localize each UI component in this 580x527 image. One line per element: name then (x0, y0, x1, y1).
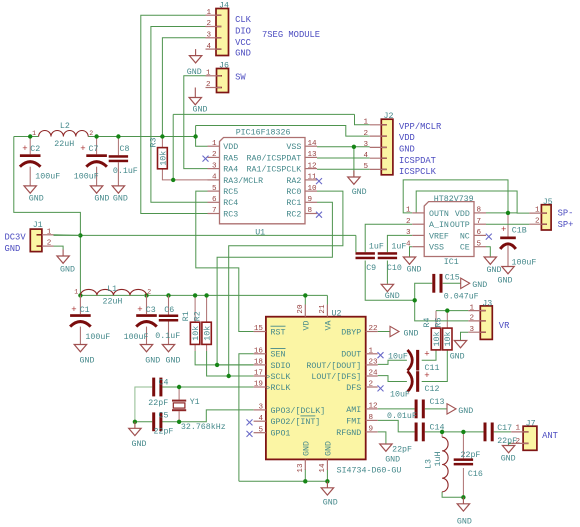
svg-text:9: 9 (308, 196, 313, 204)
svg-text:A_IN: A_IN (429, 221, 449, 230)
svg-text:14: 14 (308, 140, 318, 148)
svg-text:U1: U1 (255, 229, 265, 238)
wire C17 to J7 pin1 (494, 431, 512, 433)
svg-text:GND: GND (404, 329, 419, 338)
junction IC1 VDD / C1B (506, 211, 510, 215)
svg-text:Y1: Y1 (190, 398, 200, 407)
svg-text:10uF: 10uF (388, 353, 408, 362)
wire A_IN IC1 pin2 to C9 (365, 224, 412, 252)
capacitor C16 (454, 451, 483, 479)
svg-text:GND: GND (385, 456, 400, 465)
ground C1 (74, 344, 94, 365)
svg-text:GND: GND (145, 356, 160, 365)
svg-text:J4: J4 (219, 1, 229, 10)
wire C9 bottom to volume node (365, 261, 415, 301)
svg-text:GPO3/[DCLK]: GPO3/[DCLK] (271, 406, 326, 416)
svg-text:0.1uF: 0.1uF (155, 332, 180, 341)
svg-text:10k: 10k (432, 332, 442, 347)
wire 3V3 rail mid (54, 234, 356, 236)
svg-text:23: 23 (369, 359, 379, 367)
ground C16 L3 (457, 497, 472, 526)
ground J3 (450, 340, 467, 362)
wire L3 bottom to ground node (442, 492, 463, 498)
svg-text:1: 1 (74, 289, 78, 296)
svg-text:R4: R4 (423, 318, 432, 328)
svg-text:1: 1 (212, 140, 217, 148)
J6 label SW (235, 72, 246, 82)
wire R2 leads (206, 295, 208, 322)
connector J2 ICSP (370, 112, 394, 175)
svg-text:GND: GND (94, 195, 109, 204)
wire J3 pin3 to ground (461, 332, 469, 340)
svg-text:RA5: RA5 (223, 154, 238, 163)
wire C15 right to flag (443, 282, 461, 284)
svg-text:8: 8 (369, 414, 374, 422)
junction J1 DC3V (78, 233, 82, 237)
svg-text:DOUT: DOUT (341, 351, 361, 360)
IC1 pin numbers (406, 207, 482, 249)
svg-text:GND: GND (187, 68, 202, 77)
svg-text:2: 2 (363, 130, 368, 138)
junction crystal top (177, 385, 181, 389)
svg-text:1: 1 (515, 425, 520, 433)
wire OUTP IC1 pin7 to J5 pin2 (486, 223, 529, 225)
connector J4 (206, 1, 229, 55)
svg-text:1: 1 (47, 228, 52, 236)
svg-text:1uF: 1uF (391, 242, 406, 251)
svg-text:3: 3 (406, 229, 411, 237)
svg-text:RCLK: RCLK (271, 384, 291, 393)
svg-text:20: 20 (297, 304, 305, 314)
wire OUTN IC1 pin1 to J5 (403, 180, 508, 213)
svg-text:NC: NC (460, 232, 470, 241)
svg-text:GND: GND (501, 455, 516, 464)
junction VDD/rail (193, 134, 197, 138)
wire U2 DBYP to flag (378, 331, 390, 333)
crystal Y1 (172, 398, 226, 432)
connector J6 (206, 62, 229, 93)
resistor R3 (149, 138, 168, 169)
svg-text:VR: VR (499, 321, 510, 331)
ground C1B (498, 266, 515, 286)
junction U2 pin13 gnd (303, 479, 307, 483)
svg-text:100uF: 100uF (124, 333, 149, 342)
svg-text:VDD: VDD (399, 133, 415, 143)
svg-text:14: 14 (319, 463, 327, 473)
svg-text:+: + (424, 371, 429, 381)
svg-text:GND: GND (132, 440, 147, 449)
svg-text:RA2: RA2 (286, 177, 301, 186)
svg-text:5: 5 (212, 185, 217, 193)
svg-text:5: 5 (363, 163, 368, 171)
ground RFGND (380, 444, 400, 465)
svg-text:1: 1 (32, 130, 36, 137)
svg-text:15: 15 (254, 325, 264, 333)
svg-text:2: 2 (469, 315, 474, 323)
svg-text:GND: GND (407, 265, 422, 274)
svg-text:C17: C17 (497, 424, 512, 433)
wire C5 right (162, 421, 179, 423)
svg-text:13: 13 (308, 151, 318, 159)
resistor R1 (182, 311, 201, 344)
svg-text:1: 1 (206, 9, 211, 17)
capacitor C4 (148, 378, 168, 409)
svg-text:GND: GND (487, 266, 502, 275)
junction crystal bottom (177, 420, 181, 424)
svg-text:LOUT/[DFS]: LOUT/[DFS] (311, 372, 361, 382)
ground U2 pin14 (321, 481, 338, 507)
svg-text:13: 13 (297, 463, 305, 473)
J6 pin numbers (206, 70, 211, 90)
junction SDIO/R1 (215, 363, 219, 367)
svg-text:RC5: RC5 (223, 188, 238, 197)
svg-text:GND: GND (472, 281, 487, 290)
svg-text:2: 2 (212, 151, 217, 159)
svg-text:2: 2 (369, 381, 374, 389)
radio U2 SI4734 (254, 305, 402, 476)
ground C2 (24, 185, 44, 203)
svg-text:1: 1 (469, 304, 474, 312)
svg-text:ICSPCLK: ICSPCLK (399, 167, 437, 177)
svg-text:GND: GND (193, 106, 208, 115)
svg-text:GND: GND (5, 244, 21, 254)
wire VCC J4 pin3 to rail (162, 38, 205, 137)
wire U1 RC0 to U2 SCLK (229, 191, 343, 376)
wire J1 pin2 to ground (54, 246, 64, 249)
svg-text:VA: VA (324, 321, 333, 331)
svg-text:VDD: VDD (455, 210, 470, 219)
svg-text:1uH: 1uH (434, 452, 443, 467)
svg-text:VD: VD (302, 321, 311, 331)
svg-text:4: 4 (212, 174, 217, 182)
wire VREF IC1 pin3 to C10 (387, 235, 412, 252)
svg-text:GND: GND (385, 292, 400, 301)
ground J7 (501, 445, 516, 464)
svg-text:2: 2 (147, 289, 151, 296)
junction L1 right / C3 (144, 293, 148, 297)
svg-text:RA0/ICSPDAT: RA0/ICSPDAT (247, 153, 302, 163)
connector J3 volume (468, 299, 492, 339)
svg-text:SW: SW (235, 72, 246, 82)
capacitor C9 (356, 242, 384, 273)
wire C10 bottom to ground (386, 261, 388, 284)
svg-text:>: > (266, 374, 270, 382)
J4 pin labels CLK DIO VCC GND (235, 15, 252, 59)
amplifier IC1 HT82V739 (412, 195, 486, 267)
U2 pin numbers (254, 304, 378, 473)
svg-text:R5: R5 (435, 318, 444, 328)
svg-text:10k: 10k (443, 332, 453, 347)
svg-text:RC3: RC3 (223, 210, 238, 219)
wire ICSPCLK U1 pin12 to J2 (317, 168, 370, 170)
svg-text:U2: U2 (332, 310, 342, 319)
wire U2 LOUT to C12 (378, 376, 407, 382)
wire C12 right to R5 (422, 350, 448, 382)
junction R3/rail (160, 134, 164, 138)
svg-text:OUTN: OUTN (429, 210, 449, 219)
capacitor C1B (500, 225, 536, 267)
inductor L1 (74, 285, 151, 306)
resistor R5 (435, 318, 454, 350)
junction C6/rail (166, 293, 170, 297)
svg-text:100uF: 100uF (74, 172, 99, 181)
svg-text:DFS: DFS (346, 384, 361, 393)
wire L3 top lead (441, 432, 443, 437)
J3 label VR (499, 321, 510, 331)
svg-text:>: > (266, 385, 270, 393)
svg-text:C1: C1 (80, 306, 90, 315)
svg-text:+: + (22, 144, 27, 154)
svg-text:RST: RST (271, 328, 286, 337)
svg-text:4: 4 (258, 415, 263, 423)
ground C8 (112, 185, 128, 203)
svg-text:J3: J3 (482, 299, 492, 308)
junction VD pin20 (303, 293, 307, 297)
junction C7/rail (94, 134, 98, 138)
svg-text:9: 9 (369, 426, 374, 434)
wire J2 GND drop (353, 147, 355, 177)
wire IC1 VDD to C1B (486, 212, 517, 214)
svg-text:2: 2 (47, 240, 52, 248)
connector J5 speaker (529, 198, 552, 230)
J5 labels SP- SP+ (558, 209, 574, 230)
J1 labels DC3V GND (5, 233, 27, 255)
svg-text:22: 22 (369, 325, 379, 333)
svg-text:RA1/ICSPCLK: RA1/ICSPCLK (247, 165, 302, 175)
svg-text:2: 2 (406, 218, 411, 226)
svg-text:1: 1 (363, 119, 368, 127)
junction C14 / L3 (440, 430, 444, 434)
svg-text:C12: C12 (425, 385, 440, 394)
wire VD pin20 drop (304, 295, 306, 304)
ground J4 (187, 49, 202, 77)
svg-text:10k: 10k (202, 326, 212, 341)
svg-text:2: 2 (206, 20, 211, 28)
svg-text:2: 2 (515, 438, 520, 446)
svg-text:GND: GND (458, 407, 473, 416)
ground J2 pin3 (348, 171, 367, 198)
flag GND C13 (447, 404, 473, 416)
ground IC1 CE (484, 257, 501, 275)
wire C16 leads (462, 432, 464, 459)
svg-text:R2: R2 (194, 311, 203, 321)
svg-text:J2: J2 (384, 112, 394, 121)
J1 pin numbers (47, 228, 52, 247)
wire U1 VSS to J2 GND (317, 146, 370, 148)
svg-text:VDD: VDD (223, 143, 238, 152)
svg-text:8: 8 (308, 207, 313, 215)
wire VA rail (83, 294, 145, 296)
wire J7 pin2 to ground (509, 443, 512, 445)
junction C2/rail (28, 134, 32, 138)
ground J1 (57, 250, 75, 275)
svg-text:GND: GND (457, 518, 472, 527)
svg-text:HT82V739: HT82V739 (434, 195, 474, 204)
capacitor C14 (392, 423, 444, 455)
svg-text:22uH: 22uH (54, 140, 74, 149)
capacitor C8 (109, 145, 138, 186)
svg-text:GND: GND (29, 195, 44, 204)
svg-text:DBYP: DBYP (341, 328, 361, 337)
svg-text:6: 6 (212, 196, 217, 204)
svg-text:C16: C16 (468, 470, 483, 479)
junction volume node C15 (413, 298, 417, 302)
svg-text:3: 3 (363, 141, 368, 149)
svg-text:GND: GND (302, 441, 311, 456)
U1 pin numbers (212, 140, 317, 215)
svg-text:J6: J6 (219, 62, 229, 71)
svg-text:100uF: 100uF (512, 259, 537, 268)
U2 no-connect marks pins 4 5 1 2 (247, 352, 384, 437)
svg-text:SDIO: SDIO (271, 362, 291, 371)
flag GND C15 (461, 278, 488, 290)
ground crystal caps (129, 422, 147, 449)
svg-text:2: 2 (206, 81, 211, 89)
ground C7 (90, 185, 109, 203)
svg-text:GND: GND (352, 188, 367, 197)
svg-text:1: 1 (206, 70, 211, 78)
svg-text:C2: C2 (30, 145, 40, 154)
label 7SEG MODULE (262, 30, 320, 40)
svg-text:11: 11 (308, 174, 318, 182)
J5 pin numbers (535, 207, 540, 226)
wire C15 left lead (415, 283, 433, 300)
wire U1 RC1 to U2 SDIO (217, 202, 332, 365)
wire IC1 CE to ground (486, 247, 490, 257)
svg-text:GND: GND (324, 441, 333, 456)
svg-text:J5: J5 (543, 198, 553, 207)
connector J1 power (30, 221, 80, 252)
wire MCLR net (162, 169, 207, 180)
junction U2 pin14 gnd (325, 479, 329, 483)
svg-text:L3: L3 (425, 459, 434, 469)
svg-text:RC2: RC2 (286, 210, 301, 219)
capacitor C1 (70, 295, 110, 344)
wire CLK J4 pin1 to U1 RC3 (141, 15, 208, 213)
svg-text:C1B: C1B (512, 227, 527, 236)
wire U2 SEN to ground rail (239, 354, 254, 482)
wire U2 ground rail pins 13 14 (239, 480, 328, 482)
svg-text:L2: L2 (60, 122, 70, 131)
junction MCLR (171, 178, 175, 182)
svg-text:+: + (71, 305, 76, 315)
wire SW J6 pin1 to U1 RA4 (184, 76, 208, 169)
wire U2 AMI to C13 (378, 408, 415, 410)
ground J6 pin2 (189, 88, 207, 115)
svg-text:100uF: 100uF (85, 333, 110, 342)
svg-text:VSS: VSS (429, 244, 444, 253)
wire C5 left (135, 421, 152, 423)
svg-text:R1: R1 (182, 311, 191, 321)
svg-text:GND: GND (60, 266, 75, 275)
svg-text:RFGND: RFGND (336, 429, 361, 438)
capacitor C12 (390, 371, 439, 400)
svg-text:SP+: SP+ (558, 220, 574, 230)
svg-text:7: 7 (477, 218, 482, 226)
svg-text:J1: J1 (33, 221, 43, 230)
junction C8/rail (116, 134, 120, 138)
wire RCLK to crystal (179, 386, 254, 388)
svg-text:21: 21 (319, 304, 327, 314)
svg-text:+: + (424, 350, 429, 360)
svg-text:SCLK: SCLK (271, 373, 291, 382)
wire Y1 leads (178, 387, 180, 400)
wire R1 leads (194, 295, 196, 322)
svg-text:1: 1 (406, 207, 411, 215)
ground C10 (381, 284, 400, 301)
svg-text:J7: J7 (526, 419, 536, 428)
capacitor C13 (387, 398, 444, 421)
junction J2 GND (352, 145, 356, 149)
capacitor C7 (74, 144, 107, 185)
svg-text:6: 6 (477, 229, 482, 237)
svg-text:DC3V: DC3V (5, 233, 27, 243)
svg-text:C8: C8 (120, 145, 130, 154)
junction L1 left (78, 293, 82, 297)
svg-text:DIO: DIO (235, 26, 251, 36)
svg-text:4: 4 (363, 152, 368, 160)
svg-text:R3: R3 (149, 138, 158, 148)
svg-text:10uF: 10uF (390, 391, 410, 400)
svg-text:0.047uF: 0.047uF (444, 293, 479, 302)
svg-text:100uF: 100uF (35, 172, 60, 181)
junction C4 C5 ground node (133, 420, 137, 424)
svg-text:+: + (501, 225, 506, 235)
svg-text:GND: GND (323, 499, 338, 508)
svg-text:C10: C10 (387, 264, 402, 273)
svg-text:12: 12 (369, 403, 379, 411)
svg-text:7: 7 (212, 207, 217, 215)
svg-text:8: 8 (477, 207, 482, 215)
wire volume node to J3 pin2 (415, 300, 469, 321)
svg-text:22pF: 22pF (497, 437, 517, 446)
svg-text:C4: C4 (159, 379, 169, 388)
svg-text:SI4734-D60-GU: SI4734-D60-GU (337, 467, 402, 476)
svg-text:10k: 10k (191, 326, 201, 341)
J2 pin labels (399, 122, 442, 177)
svg-text:0.1uF: 0.1uF (113, 167, 138, 176)
resistor R4 (423, 318, 442, 350)
wire U2 FMI to C14 (378, 420, 415, 432)
svg-text:VCC: VCC (235, 38, 251, 48)
svg-text:12: 12 (308, 162, 318, 170)
wire GPO3 to crystal (179, 410, 254, 422)
U1 no-connect marks pins 2 11 8 (203, 156, 323, 218)
svg-text:C7: C7 (89, 145, 99, 154)
resistor R2 (194, 311, 213, 344)
svg-text:22pF: 22pF (154, 428, 174, 437)
svg-text:C6: C6 (164, 306, 174, 315)
wire 3V3 rail top (14, 136, 39, 138)
svg-text:32.768kHz: 32.768kHz (181, 422, 226, 432)
junction R2/rail (204, 293, 208, 297)
svg-text:VPP/MCLR: VPP/MCLR (399, 122, 442, 132)
svg-text:AMI: AMI (346, 406, 361, 415)
capacitor C15 (432, 274, 478, 302)
svg-text:ICSPDAT: ICSPDAT (399, 156, 436, 166)
wire C14 right antenna node (425, 431, 484, 433)
svg-text:3: 3 (258, 404, 263, 412)
svg-text:C9: C9 (366, 264, 376, 273)
wire R3 top lead (161, 137, 163, 148)
svg-text:22pF: 22pF (148, 399, 168, 408)
capacitor C11 (388, 350, 439, 374)
svg-text:RA4: RA4 (223, 166, 238, 175)
svg-text:C14: C14 (430, 424, 445, 433)
svg-text:C13: C13 (430, 398, 445, 407)
svg-text:24: 24 (369, 370, 379, 378)
ground IC1 VSS (403, 257, 421, 275)
